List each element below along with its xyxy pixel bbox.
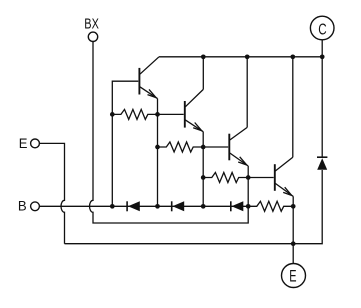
wire Q3 collector vertical <box>246 57 248 128</box>
transistor Q1 <box>138 68 140 95</box>
node B row 2 <box>155 204 160 209</box>
wire Q4 base <box>248 177 274 179</box>
resistor R4 <box>248 201 293 211</box>
node B row 1 <box>110 204 115 209</box>
transistor Q2 <box>184 101 186 128</box>
transistor Q4 <box>274 164 276 191</box>
wire E left lead with hop <box>39 143 64 243</box>
node rail-C <box>320 54 325 59</box>
wire Q2 emitter vertical <box>202 132 204 207</box>
wire bottom rail E <box>65 170 323 244</box>
diode D1 <box>126 201 128 211</box>
transistor Q3 <box>228 134 230 161</box>
wire Q4 emitter vertical <box>292 196 294 243</box>
node R3 right <box>246 175 251 180</box>
wire Q3 emitter vertical <box>247 166 249 206</box>
diode D2 <box>171 201 173 211</box>
wire top rail C <box>159 56 322 58</box>
node R2 right <box>201 145 206 150</box>
wire Q3 base <box>203 146 228 148</box>
node bottom rail E <box>291 241 296 246</box>
node B row 3 <box>201 204 206 209</box>
wire E bottom stub <box>292 244 294 264</box>
node R1 right <box>155 112 160 117</box>
wire diode D5 top lead <box>321 57 323 157</box>
node B row 4 <box>246 204 251 209</box>
terminal C <box>310 16 334 40</box>
svg-text:B: B <box>18 198 27 214</box>
resistor R1 <box>112 109 157 119</box>
node R3 left <box>201 175 206 180</box>
node R2 left <box>155 145 160 150</box>
diode D5 free-wheel <box>317 156 327 158</box>
svg-text:E: E <box>289 267 296 286</box>
node rail-Q4 <box>290 54 295 59</box>
node rail-Q3 <box>245 54 250 59</box>
wire Q4 collector vertical <box>292 57 294 158</box>
terminal E left <box>31 139 40 148</box>
wire Q1 emitter vertical <box>157 99 159 207</box>
wire BX vertical with hop and bracket to node <box>90 42 249 224</box>
terminal E bottom <box>282 264 306 288</box>
diode D3 <box>230 201 232 211</box>
wire Q1 base and left vertical <box>112 81 138 206</box>
terminal BX <box>88 32 97 41</box>
terminal B <box>31 202 40 211</box>
wire Q2 base <box>158 113 184 115</box>
svg-text:BX: BX <box>84 15 99 32</box>
svg-text:C: C <box>318 22 326 39</box>
svg-text:E: E <box>19 135 28 151</box>
resistor R2 <box>158 142 204 152</box>
wire B row <box>39 205 248 207</box>
node rail-Q2 <box>201 54 206 59</box>
node R1 left <box>110 112 115 117</box>
node R4 right <box>291 204 296 209</box>
wire Q2 collector vertical <box>202 57 204 90</box>
resistor R3 <box>203 173 248 183</box>
wire C stub <box>321 40 323 57</box>
